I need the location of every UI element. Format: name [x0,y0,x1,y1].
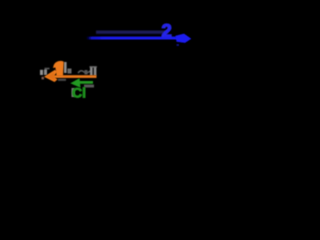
gray handwriting row [40,62,97,79]
blue dot under arrowhead [177,44,180,46]
orange arrow shaft (points left) [51,75,97,78]
blue arrowhead [176,34,192,43]
svg-text:Cl: Cl [72,85,86,101]
svg-text:2: 2 [162,20,172,41]
orange arrowhead [44,70,58,82]
green arrowhead [70,78,80,88]
green arrow shaft (points left) [76,81,93,84]
label 1 (orange) [53,61,64,76]
blue arrow shaft (step 2) [86,37,178,40]
blue ghost smear above arrow shaft [96,31,168,34]
gray marks under green shaft [58,79,94,97]
